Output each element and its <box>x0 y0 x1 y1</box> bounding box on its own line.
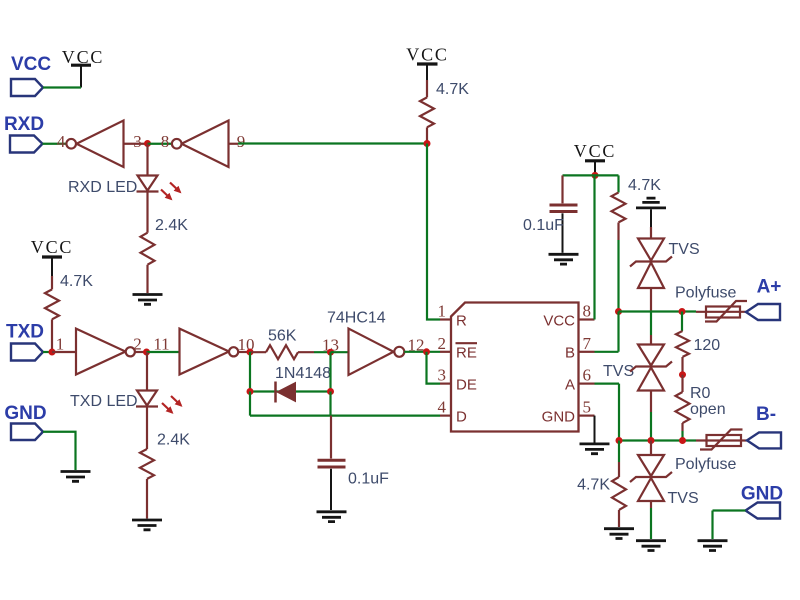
pin 7 <box>579 334 595 353</box>
svg-text:2: 2 <box>438 334 447 353</box>
diode 1N4148 <box>250 382 331 403</box>
svg-text:6: 6 <box>583 366 592 385</box>
op-amp U3 RS485 transceiver <box>451 303 579 432</box>
svg-text:RE: RE <box>456 345 477 362</box>
svg-text:8: 8 <box>161 132 170 151</box>
wire B pin up to rail <box>595 312 619 352</box>
svg-text:3: 3 <box>438 366 447 385</box>
ground (GND port left) <box>61 472 91 482</box>
svg-text:1N4148: 1N4148 <box>275 365 331 382</box>
resistor 56K <box>250 345 314 359</box>
junction B- rail mid <box>648 437 655 444</box>
svg-text:4: 4 <box>57 132 66 151</box>
svg-text:VCC: VCC <box>11 54 51 75</box>
wire A pin down to B- rail <box>595 384 620 441</box>
wire B- rail <box>619 439 696 441</box>
pin 2 <box>438 334 452 353</box>
svg-text:RXD LED: RXD LED <box>68 179 137 196</box>
svg-text:120: 120 <box>694 337 721 354</box>
pin 1 <box>438 302 452 321</box>
wire pullup node down to R pin <box>427 144 440 320</box>
svg-text:56K: 56K <box>268 328 297 345</box>
inverter U1B (TXD stage 2, points right) <box>180 329 251 375</box>
polyfuse (A+) <box>696 301 747 322</box>
wire VCC node horizontal <box>563 174 619 176</box>
svg-text:0.1uF: 0.1uF <box>348 471 389 488</box>
led TXD LED <box>136 352 181 449</box>
tvs D1 (A+ line) <box>630 227 672 312</box>
svg-text:5: 5 <box>583 398 592 417</box>
tvs D2 (between lines) <box>630 312 672 441</box>
svg-text:4.7K: 4.7K <box>436 81 469 98</box>
svg-text:4.7K: 4.7K <box>60 273 93 290</box>
wire A+ rail <box>619 310 697 312</box>
resistor 4.7K (TXD pullup) <box>45 276 59 352</box>
inverter U2A (RXD output stage, points left) <box>66 121 147 168</box>
power VCC symbol (TXD pullup) <box>31 237 73 276</box>
junction diode left <box>247 388 254 395</box>
svg-text:2: 2 <box>133 335 142 354</box>
svg-text:RXD: RXD <box>4 114 44 135</box>
junction B- rail right <box>679 437 686 444</box>
svg-text:9: 9 <box>237 132 246 151</box>
ground (TXD LED) <box>132 520 162 530</box>
svg-text:TVS: TVS <box>603 363 634 380</box>
svg-text:1: 1 <box>438 302 447 321</box>
wire VCC port to VCC symbol <box>43 86 81 88</box>
resistor 4.7K (R pin pullup) <box>420 80 434 144</box>
resistor 4.7K (B- pulldown) <box>612 441 626 528</box>
wire GND port to ground <box>713 511 746 540</box>
svg-text:DE: DE <box>456 377 477 394</box>
node 12 junction <box>423 348 430 355</box>
wire D net <box>250 392 440 416</box>
svg-text:TVS: TVS <box>668 490 699 507</box>
svg-text:Polyfuse: Polyfuse <box>675 285 736 302</box>
junction diode right <box>327 388 334 395</box>
wire node 10 down to diode <box>249 352 251 392</box>
wire GND port to ground <box>43 432 76 470</box>
svg-text:Polyfuse: Polyfuse <box>675 456 736 473</box>
node 1 junction <box>49 349 56 356</box>
junction R pullup node <box>424 140 431 147</box>
power VCC symbol (top left) <box>62 47 104 88</box>
svg-text:TXD: TXD <box>6 322 44 343</box>
svg-text:B: B <box>565 345 575 362</box>
svg-text:D: D <box>456 409 467 426</box>
svg-text:4: 4 <box>438 398 447 417</box>
capacitor 0.1uF (VCC decoupling) <box>550 175 578 252</box>
ground (RXD LED) <box>133 295 163 305</box>
junction VCC right <box>592 172 599 179</box>
resistor 2.4K (RXD LED) <box>141 233 155 293</box>
svg-text:VCC: VCC <box>31 237 73 257</box>
svg-text:B-: B- <box>756 404 776 425</box>
wire node 2 to inverter <box>147 351 180 353</box>
ground (IC pin 5) <box>580 416 610 454</box>
svg-text:open: open <box>690 401 726 418</box>
pin 4 <box>438 398 452 417</box>
svg-text:GND: GND <box>4 403 46 424</box>
wire cap branch <box>329 392 331 416</box>
svg-text:GND: GND <box>542 409 576 426</box>
junction B- rail left <box>616 437 623 444</box>
port GND (bottom right) <box>741 484 783 519</box>
power VCC symbol (top middle) <box>406 45 448 81</box>
svg-text:A+: A+ <box>757 277 782 298</box>
junction 120 top <box>679 308 686 315</box>
resistor 2.4K (TXD LED) <box>140 449 154 519</box>
svg-text:74HC14: 74HC14 <box>327 310 386 327</box>
wire node 13 down to diode <box>329 352 331 391</box>
led RXD LED <box>137 144 181 233</box>
wire node 12 down to DE <box>427 352 441 384</box>
tvs D3 (B- line) <box>630 441 672 540</box>
svg-text:VCC: VCC <box>543 313 575 330</box>
svg-text:11: 11 <box>153 335 169 354</box>
resistor R0 <box>676 375 690 441</box>
svg-text:R: R <box>456 313 467 330</box>
wire 74HC14 output to node 12 <box>404 351 440 353</box>
junction B node on A+ rail <box>615 308 622 315</box>
ground flipped (TVS A+ top) <box>636 198 666 227</box>
ground (GND port right) <box>698 541 728 551</box>
resistor 120 <box>676 312 689 375</box>
svg-text:8: 8 <box>583 302 592 321</box>
power VCC symbol (right) <box>574 141 616 175</box>
wire RXD port to inverter output <box>43 143 67 145</box>
port TXD <box>6 322 44 361</box>
ground (VCC decoupling cap) <box>549 254 579 264</box>
ground (0.1uF mid) <box>317 512 347 522</box>
svg-text:A: A <box>565 377 575 394</box>
port A+ <box>746 277 781 321</box>
pin 8 <box>579 302 595 321</box>
svg-text:0.1uF: 0.1uF <box>523 217 564 234</box>
svg-text:VCC: VCC <box>406 45 448 65</box>
port GND (left) <box>4 403 46 440</box>
svg-text:4.7K: 4.7K <box>628 177 661 194</box>
inverter U2B (RXD input stage, points left) <box>172 121 238 168</box>
wire node 13 to 74HC14 input <box>331 351 349 353</box>
junction 120 / R0 <box>679 371 686 378</box>
pin 6 <box>579 366 595 385</box>
port B- <box>747 404 781 448</box>
port VCC (top left) <box>11 54 51 96</box>
ground (TVS bottom) <box>636 541 666 551</box>
wire inverter 9 to R pullup node <box>238 142 427 144</box>
resistor 4.7K (B line pullup) <box>612 175 626 311</box>
pin 5 <box>579 398 595 417</box>
node 13 junction <box>327 349 334 356</box>
svg-text:TXD LED: TXD LED <box>70 393 138 410</box>
label R0 open <box>690 385 726 418</box>
svg-text:2.4K: 2.4K <box>155 217 188 234</box>
capacitor 0.1uF (mid) <box>318 416 346 510</box>
node 10 junction <box>247 349 254 356</box>
inverter 74HC14 (points right) <box>349 329 405 376</box>
svg-text:1: 1 <box>56 335 65 354</box>
node 2 junction <box>143 349 150 356</box>
svg-text:R0: R0 <box>690 385 711 402</box>
inverter U1A (TXD stage 1, points right) <box>76 329 147 375</box>
wire 56K to node 13 <box>314 351 331 353</box>
svg-text:4.7K: 4.7K <box>577 477 610 494</box>
svg-text:2.4K: 2.4K <box>157 432 190 449</box>
wire node 1 to inverter input <box>52 351 76 353</box>
wire node 3 to inverter <box>148 143 172 145</box>
node 3 junction <box>144 140 151 147</box>
wire TXD port to node 1 <box>43 351 52 353</box>
svg-text:VCC: VCC <box>574 141 616 161</box>
polyfuse (B-) <box>696 430 747 450</box>
wire VCC node down to pin 8 <box>593 175 595 319</box>
pin 3 <box>438 366 452 385</box>
svg-text:7: 7 <box>583 334 592 353</box>
svg-text:3: 3 <box>133 132 142 151</box>
svg-text:TVS: TVS <box>669 241 700 258</box>
ground (4.7K pulldown) <box>604 529 634 539</box>
port RXD <box>4 114 44 153</box>
